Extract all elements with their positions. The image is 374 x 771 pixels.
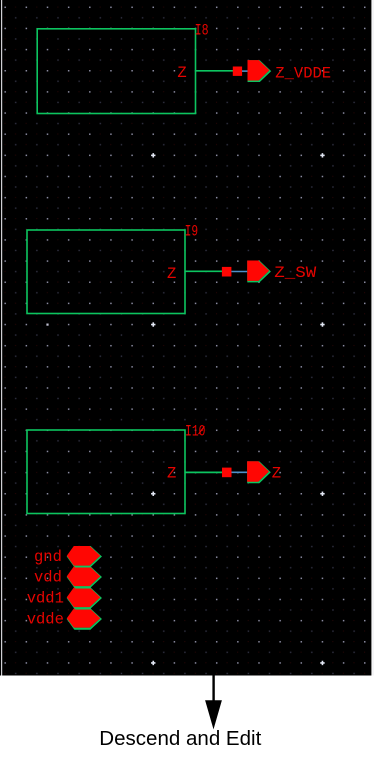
solder square on wire (I8) xyxy=(233,67,242,76)
instance I8 (symbol body) xyxy=(37,29,195,114)
pin label Z of I9 xyxy=(167,265,176,283)
caption Descend and Edit xyxy=(99,728,261,750)
annotation arrow shaft xyxy=(212,676,214,701)
annotation arrow head xyxy=(205,700,222,729)
output pin symbol Z_SW xyxy=(247,261,270,282)
output pin symbol Z (I10) xyxy=(247,461,270,482)
svg-text:Z_SW: Z_SW xyxy=(274,264,317,282)
svg-text:gnd: gnd xyxy=(34,548,62,566)
svg-text:Z: Z xyxy=(177,64,186,82)
output pin symbol Z_VDDE xyxy=(248,60,271,81)
svg-text:I10: I10 xyxy=(185,423,206,441)
pin stub (I10) xyxy=(232,471,249,473)
pin label Z of I10 xyxy=(167,465,176,483)
inout pin vdd xyxy=(67,567,101,587)
pin label vdde xyxy=(27,611,64,629)
svg-text:Z: Z xyxy=(167,265,176,283)
net label Z_SW xyxy=(274,264,317,282)
pin stub (I9) xyxy=(231,271,248,273)
wire from I8.Z xyxy=(196,70,234,72)
net label Z_VDDE xyxy=(275,65,331,83)
pin label vdd1 xyxy=(27,590,64,608)
solder square on wire (I9) xyxy=(222,267,232,277)
svg-text:vdd: vdd xyxy=(34,569,62,587)
net label Z (I10) xyxy=(272,464,281,482)
svg-text:Z: Z xyxy=(272,464,281,482)
svg-text:vdd1: vdd1 xyxy=(27,590,64,608)
svg-text:Z_VDDE: Z_VDDE xyxy=(275,65,331,83)
pin stub (I8) xyxy=(242,70,249,72)
label I9 xyxy=(185,222,199,240)
inout pin vdde xyxy=(67,609,101,629)
label I10 xyxy=(185,423,206,441)
pin label gnd xyxy=(34,548,62,566)
pin label vdd xyxy=(34,569,62,587)
solder square on wire (I10) xyxy=(222,468,232,478)
junction edges between inout pins xyxy=(75,567,91,629)
inout pin vdd1 xyxy=(67,588,101,608)
instance I10 (symbol body) xyxy=(27,430,185,514)
inout pin gnd xyxy=(67,546,101,566)
svg-text:I9: I9 xyxy=(185,222,199,240)
wire from I10.Z xyxy=(185,471,223,473)
pin label Z of I8 xyxy=(177,64,186,82)
grid highlight dots xyxy=(46,153,324,665)
svg-text:I8: I8 xyxy=(195,21,209,39)
wire from I9.Z xyxy=(185,270,223,272)
slash of zero in I10 xyxy=(199,426,205,434)
svg-text:Z: Z xyxy=(167,465,176,483)
svg-text:vdde: vdde xyxy=(27,611,64,629)
instance I9 (symbol body) xyxy=(27,230,185,314)
svg-text:Descend and Edit: Descend and Edit xyxy=(99,728,261,750)
label I8 xyxy=(195,21,209,39)
